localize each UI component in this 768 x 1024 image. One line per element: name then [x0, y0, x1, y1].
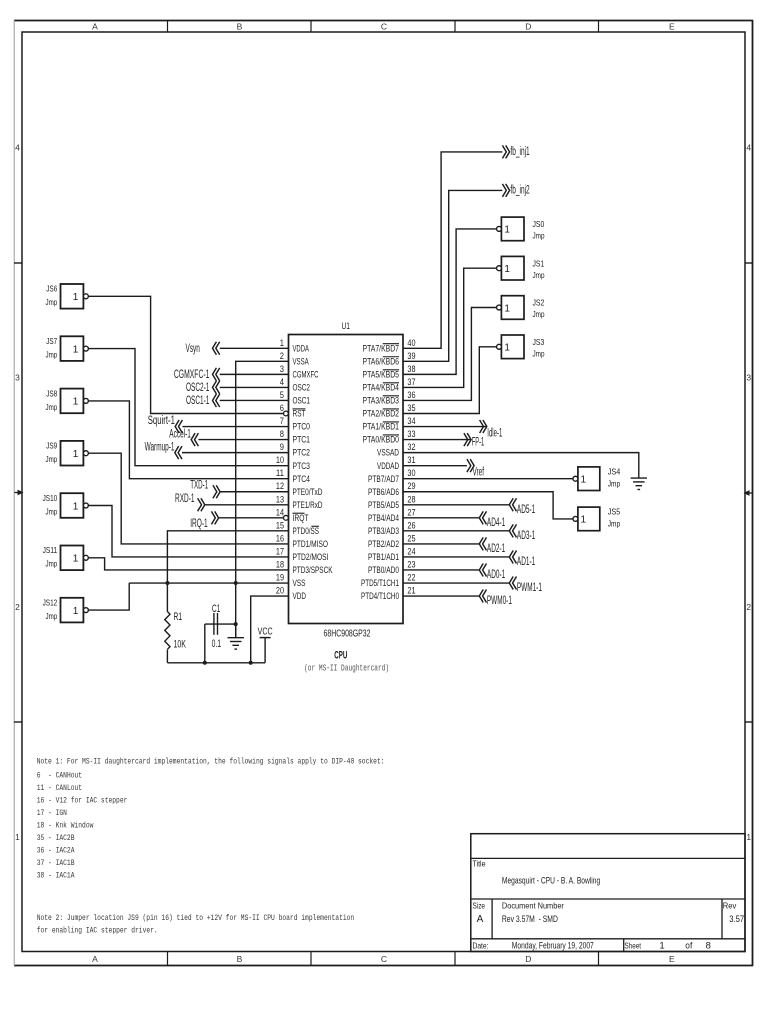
svg-text:36 - IAC2A: 36 - IAC2A	[37, 847, 75, 856]
svg-text:PTD2/MOSI: PTD2/MOSI	[293, 552, 329, 562]
svg-text:PTE0/TxD: PTE0/TxD	[293, 487, 323, 497]
svg-text:Document Number: Document Number	[502, 901, 564, 911]
svg-text:22: 22	[407, 573, 415, 583]
svg-text:Jmp: Jmp	[46, 507, 58, 516]
svg-text:PTA4/KBD4: PTA4/KBD4	[363, 383, 400, 393]
svg-text:35 - IAC2B: 35 - IAC2B	[37, 834, 75, 843]
svg-text:A: A	[477, 914, 484, 925]
svg-text:9: 9	[280, 442, 284, 452]
svg-text:R1: R1	[174, 611, 183, 623]
svg-text:AD1-1: AD1-1	[517, 556, 535, 568]
svg-text:PTA1/KBD1: PTA1/KBD1	[363, 422, 400, 432]
svg-text:39: 39	[407, 351, 415, 361]
svg-text:10K: 10K	[174, 638, 187, 650]
svg-text:Jmp: Jmp	[533, 349, 545, 358]
svg-text:AD0-1: AD0-1	[487, 569, 505, 581]
svg-text:3: 3	[15, 373, 20, 383]
svg-text:13: 13	[276, 494, 284, 504]
svg-text:1: 1	[504, 303, 510, 314]
svg-text:Jmp: Jmp	[46, 298, 58, 307]
svg-text:VCC: VCC	[258, 625, 273, 637]
svg-text:C1: C1	[212, 603, 221, 615]
svg-text:JS0: JS0	[533, 220, 545, 229]
svg-text:1: 1	[659, 940, 664, 951]
svg-text:PTB6/AD6: PTB6/AD6	[368, 487, 399, 497]
svg-text:PTB3/AD3: PTB3/AD3	[368, 526, 399, 536]
svg-text:16 - V12 for IAC stepper: 16 - V12 for IAC stepper	[37, 797, 128, 806]
svg-text:JS7: JS7	[46, 337, 57, 346]
svg-text:JS6: JS6	[46, 285, 57, 294]
svg-text:2: 2	[746, 602, 751, 612]
svg-text:Warmup-1: Warmup-1	[145, 441, 175, 453]
svg-text:40: 40	[407, 338, 415, 348]
svg-text:37 - IAC1B: 37 - IAC1B	[37, 859, 75, 868]
svg-text:29: 29	[407, 481, 415, 491]
svg-text:26: 26	[407, 520, 415, 530]
svg-text:PTA0/KBD0: PTA0/KBD0	[363, 435, 400, 445]
svg-text:fb_inj2: fb_inj2	[510, 185, 529, 197]
svg-text:IRQ-1: IRQ-1	[190, 518, 208, 530]
svg-text:CGMXFC: CGMXFC	[293, 369, 319, 379]
svg-text:32: 32	[407, 442, 415, 452]
svg-text:JS8: JS8	[46, 389, 57, 398]
svg-text:Squirt-1: Squirt-1	[148, 415, 175, 427]
svg-text:JS10: JS10	[43, 494, 58, 503]
svg-text:Note 2: Jumper location JS9 (p: Note 2: Jumper location JS9 (pin 16) tie…	[37, 914, 355, 923]
svg-text:PTA3/KBD3: PTA3/KBD3	[363, 396, 400, 406]
svg-text:68HC908GP32: 68HC908GP32	[324, 629, 371, 640]
svg-text:15: 15	[276, 520, 284, 530]
svg-text:Jmp: Jmp	[533, 232, 545, 241]
svg-text:36: 36	[407, 390, 415, 400]
svg-text:PTB0/AD0: PTB0/AD0	[368, 565, 399, 575]
svg-text:24: 24	[407, 546, 415, 556]
svg-text:6: 6	[280, 403, 284, 413]
svg-text:PTC2: PTC2	[293, 448, 311, 458]
svg-text:AD2-1: AD2-1	[487, 543, 505, 555]
svg-text:1: 1	[73, 344, 79, 355]
svg-text:E: E	[669, 954, 675, 964]
svg-text:CGMXFC-1: CGMXFC-1	[174, 369, 210, 381]
svg-text:25: 25	[407, 533, 415, 543]
svg-text:AD4-1: AD4-1	[487, 517, 505, 529]
svg-text:Accel-1: Accel-1	[169, 428, 191, 440]
svg-text:18 - Knk Window: 18 - Knk Window	[37, 822, 94, 831]
svg-text:PTA6/KBD6: PTA6/KBD6	[363, 356, 400, 366]
svg-text:7: 7	[280, 416, 284, 426]
svg-text:1: 1	[15, 832, 20, 842]
svg-text:PTD1/MISO: PTD1/MISO	[293, 539, 329, 549]
svg-text:U1: U1	[342, 321, 351, 332]
svg-text:12: 12	[276, 481, 284, 491]
svg-text:PTD4/T1CH0: PTD4/T1CH0	[361, 591, 399, 601]
svg-text:28: 28	[407, 494, 415, 504]
svg-text:1: 1	[581, 475, 587, 486]
svg-text:11: 11	[276, 468, 284, 478]
svg-text:IRQT: IRQT	[293, 513, 309, 523]
svg-text:C: C	[381, 22, 387, 32]
svg-text:JS9: JS9	[46, 442, 57, 451]
svg-text:33: 33	[407, 429, 415, 439]
svg-text:Jmp: Jmp	[46, 560, 58, 569]
svg-text:5: 5	[280, 390, 284, 400]
svg-text:Sheet: Sheet	[625, 940, 642, 950]
svg-text:PTC0: PTC0	[293, 422, 311, 432]
svg-text:PTC1: PTC1	[293, 435, 311, 445]
svg-text:PTB5/AD5: PTB5/AD5	[368, 500, 399, 510]
svg-text:17: 17	[276, 546, 284, 556]
svg-text:PTA7/KBD7: PTA7/KBD7	[363, 343, 400, 353]
svg-text:A: A	[92, 954, 98, 964]
svg-text:8: 8	[280, 429, 284, 439]
svg-text:PTC3: PTC3	[293, 461, 311, 471]
svg-text:35: 35	[407, 403, 415, 413]
svg-text:JS5: JS5	[608, 508, 621, 517]
svg-text:Jmp: Jmp	[608, 480, 621, 489]
svg-text:RXD-1: RXD-1	[175, 493, 195, 505]
svg-text:B: B	[237, 954, 243, 964]
svg-text:Title: Title	[473, 859, 486, 869]
svg-text:D: D	[525, 954, 531, 964]
svg-text:3.57: 3.57	[729, 914, 744, 925]
svg-text:PTC4: PTC4	[293, 474, 311, 484]
svg-text:8: 8	[706, 940, 711, 951]
svg-text:2: 2	[15, 602, 20, 612]
svg-text:30: 30	[407, 468, 415, 478]
svg-text:fb_inj1: fb_inj1	[510, 146, 529, 158]
svg-text:4: 4	[746, 143, 751, 153]
svg-text:37: 37	[407, 377, 415, 387]
svg-text:31: 31	[407, 455, 415, 465]
svg-text:D: D	[525, 22, 531, 32]
svg-text:TXD-1: TXD-1	[190, 479, 208, 491]
svg-text:38: 38	[407, 364, 415, 374]
svg-text:E: E	[669, 22, 675, 32]
svg-text:of: of	[685, 940, 692, 951]
svg-text:OSC1-1: OSC1-1	[186, 395, 209, 407]
svg-text:1: 1	[73, 449, 79, 460]
svg-text:OSC1: OSC1	[293, 396, 311, 406]
svg-text:PTD3/SPSCK: PTD3/SPSCK	[293, 565, 333, 575]
svg-text:1: 1	[73, 397, 79, 408]
svg-text:Jmp: Jmp	[46, 612, 58, 621]
svg-text:1: 1	[746, 832, 751, 842]
svg-text:AD5-1: AD5-1	[517, 504, 535, 516]
svg-text:27: 27	[407, 507, 415, 517]
svg-text:4: 4	[280, 377, 284, 387]
svg-text:for enabling IAC stepper drive: for enabling IAC stepper driver.	[37, 926, 158, 935]
svg-text:Date:: Date:	[473, 940, 489, 950]
svg-text:OSC2: OSC2	[293, 383, 311, 393]
svg-text:1: 1	[73, 554, 79, 565]
svg-text:JS11: JS11	[43, 546, 58, 555]
svg-text:1: 1	[581, 515, 587, 526]
svg-text:JS4: JS4	[608, 467, 621, 476]
svg-text:PTB1/AD1: PTB1/AD1	[368, 552, 399, 562]
svg-text:Jmp: Jmp	[46, 403, 58, 412]
svg-text:1: 1	[73, 501, 79, 512]
svg-text:14: 14	[276, 507, 284, 517]
svg-text:VSS: VSS	[293, 578, 306, 588]
svg-text:20: 20	[276, 586, 284, 596]
svg-text:VSSAD: VSSAD	[377, 448, 399, 458]
svg-text:CPU: CPU	[334, 649, 347, 661]
svg-text:VSSA: VSSA	[293, 356, 309, 366]
svg-text:18: 18	[276, 559, 284, 569]
svg-text:10: 10	[276, 455, 284, 465]
svg-text:VDDA: VDDA	[293, 343, 309, 353]
svg-text:23: 23	[407, 559, 415, 569]
svg-text:Megasquirt - CPU - B. A. Bowli: Megasquirt - CPU - B. A. Bowling	[502, 875, 600, 886]
svg-text:1: 1	[73, 606, 79, 617]
svg-text:PTB4/AD4: PTB4/AD4	[368, 513, 399, 523]
svg-text:(or MS-II Daughtercard): (or MS-II Daughtercard)	[304, 664, 389, 674]
svg-text:Monday, February 19, 2007: Monday, February 19, 2007	[512, 940, 594, 951]
svg-text:4: 4	[15, 143, 20, 153]
svg-text:Rev: Rev	[723, 901, 737, 911]
svg-text:PTE1/RxD: PTE1/RxD	[293, 500, 323, 510]
svg-text:PTB2/AD2: PTB2/AD2	[368, 539, 399, 549]
svg-text:38 - IAC1A: 38 - IAC1A	[37, 872, 75, 881]
svg-text:Idle-1: Idle-1	[487, 427, 502, 439]
svg-text:Jmp: Jmp	[46, 455, 58, 464]
svg-text:A: A	[92, 22, 98, 32]
svg-text:16: 16	[276, 533, 284, 543]
svg-text:OSC2-1: OSC2-1	[186, 382, 209, 394]
svg-text:1: 1	[504, 225, 510, 236]
svg-text:Jmp: Jmp	[46, 351, 58, 360]
svg-text:C: C	[381, 954, 387, 964]
svg-text:JS12: JS12	[43, 599, 58, 608]
svg-text:Rev 3.57M - SMD: Rev 3.57M - SMD	[502, 914, 558, 925]
svg-text:3: 3	[280, 364, 284, 374]
svg-text:PWM1-1: PWM1-1	[517, 582, 542, 594]
svg-text:JS1: JS1	[533, 259, 545, 268]
svg-text:0.1: 0.1	[212, 638, 221, 650]
svg-text:JS2: JS2	[533, 299, 545, 308]
svg-text:VDD: VDD	[293, 591, 307, 601]
svg-text:Vsyn: Vsyn	[186, 343, 200, 355]
svg-text:PTA5/KBD5: PTA5/KBD5	[363, 369, 400, 379]
svg-text:Jmp: Jmp	[608, 520, 621, 529]
svg-text:6 - CANHout: 6 - CANHout	[37, 772, 82, 781]
svg-text:1: 1	[73, 292, 79, 303]
svg-text:19: 19	[276, 573, 284, 583]
svg-text:17 - IGN: 17 - IGN	[37, 809, 67, 818]
svg-text:1: 1	[504, 343, 510, 354]
svg-text:VDDAD: VDDAD	[377, 461, 399, 471]
svg-text:RST: RST	[293, 409, 306, 419]
svg-text:PTD0/SS: PTD0/SS	[293, 526, 320, 536]
svg-text:B: B	[237, 22, 243, 32]
svg-text:Jmp: Jmp	[533, 310, 545, 319]
svg-text:1: 1	[504, 264, 510, 275]
svg-text:JS3: JS3	[533, 338, 545, 347]
svg-text:Size: Size	[473, 901, 486, 911]
svg-text:34: 34	[407, 416, 415, 426]
svg-text:PTA2/KBD2: PTA2/KBD2	[363, 409, 400, 419]
svg-text:PWM0-1: PWM0-1	[487, 595, 512, 607]
svg-text:1: 1	[280, 338, 284, 348]
svg-text:PTD5/T1CH1: PTD5/T1CH1	[361, 578, 399, 588]
svg-text:PTB7/AD7: PTB7/AD7	[368, 474, 399, 484]
svg-text:Note 1: For MS-II daughtercard: Note 1: For MS-II daughtercard implement…	[37, 758, 385, 767]
svg-text:3: 3	[746, 373, 751, 383]
svg-text:Jmp: Jmp	[533, 271, 545, 280]
svg-text:11 - CANLout: 11 - CANLout	[37, 784, 82, 793]
svg-text:FP-1: FP-1	[472, 436, 485, 448]
svg-text:Vref: Vref	[473, 466, 485, 478]
svg-text:AD3-1: AD3-1	[517, 530, 535, 542]
svg-text:21: 21	[407, 586, 415, 596]
svg-text:2: 2	[280, 351, 284, 361]
